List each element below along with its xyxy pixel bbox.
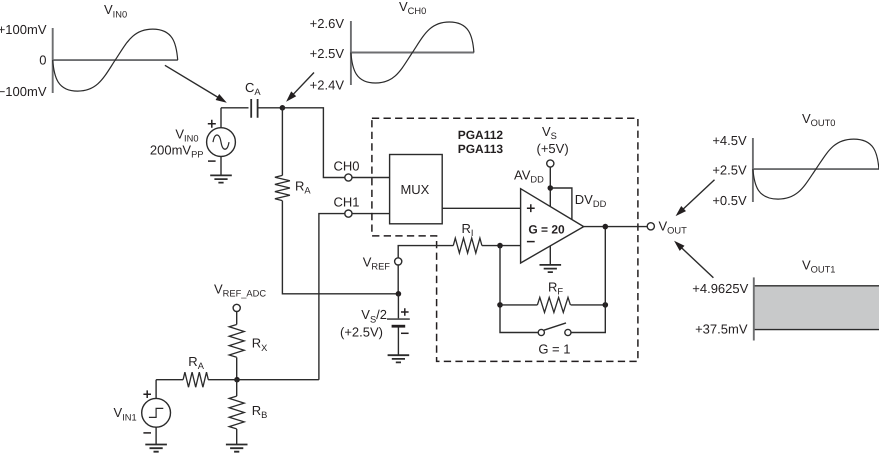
waveform V_CH0 label +2.4V [310, 78, 345, 93]
waveform V_IN0 label +100mV [0, 22, 47, 37]
wire battery to ground [397, 327, 399, 355]
waveform VOUT0 zero line [752, 168, 879, 170]
svg-text:G = 1: G = 1 [538, 341, 570, 356]
ground below V_IN0 [210, 175, 232, 182]
battery VS/2 plates [387, 319, 410, 326]
svg-text:VOUT: VOUT [659, 218, 688, 235]
source V_IN0 plus sign [208, 120, 216, 128]
svg-text:VCH0: VCH0 [399, 0, 426, 16]
CH1 terminal circle [345, 210, 352, 217]
svg-text:G = 20: G = 20 [528, 222, 565, 236]
resistor RA2 label [188, 354, 204, 371]
wire node A down to resistor RA [281, 108, 283, 176]
svg-text:RA: RA [295, 179, 311, 196]
wire capacitor CA to node A [258, 107, 283, 109]
svg-text:0: 0 [39, 53, 46, 68]
svg-text:VS/2: VS/2 [361, 307, 387, 324]
AVDD label [514, 168, 544, 185]
svg-text:−100mV: −100mV [0, 84, 47, 99]
VOUT label [659, 218, 688, 235]
resistor RB [229, 396, 244, 429]
svg-text:RX: RX [252, 336, 268, 353]
dashed boundary of PGA112/PGA113 [372, 118, 638, 361]
svg-text:PGA113: PGA113 [458, 142, 504, 156]
svg-text:VREF: VREF [363, 255, 391, 272]
ground below RB [226, 445, 248, 452]
source VIN1 label [114, 405, 137, 422]
svg-text:+2.5V: +2.5V [310, 46, 345, 61]
wire DVDD [550, 188, 572, 220]
node RF left junction dot [497, 302, 503, 308]
waveform V_IN0 y-axis [52, 28, 54, 93]
waveform V_CH0 y-axis [350, 21, 352, 85]
CH0 label [333, 159, 359, 174]
waveform V_IN0 label -100mV [0, 84, 47, 99]
svg-text:+2.6V: +2.6V [310, 16, 345, 31]
svg-text:VS: VS [542, 124, 557, 141]
svg-text:+2.5V: +2.5V [712, 162, 747, 177]
wire RX to divider node [236, 357, 238, 379]
capacitor CA [251, 99, 257, 118]
svg-text:RF: RF [548, 280, 563, 297]
waveform V_IN0 sine curve [53, 29, 178, 91]
ground below op-amp [540, 265, 562, 272]
VREF label [363, 255, 391, 272]
waveform V_CH0 zero line [350, 52, 474, 54]
MUX label [400, 182, 429, 197]
svg-text:CA: CA [245, 80, 261, 97]
waveform VOUT0 label +2.5V [712, 162, 747, 177]
resistor RA2 horizontal [183, 372, 208, 387]
switch G=1 left contact [538, 329, 544, 335]
wire node to battery [397, 294, 399, 319]
svg-text:MUX: MUX [400, 182, 429, 197]
op-amp U1 triangle [521, 189, 584, 263]
svg-text:+100mV: +100mV [0, 22, 47, 37]
wire resistor RI to op-amp minus [482, 245, 521, 247]
svg-text:(+5V): (+5V) [537, 141, 569, 156]
svg-text:RI: RI [462, 221, 474, 238]
svg-text:RA: RA [188, 354, 204, 371]
CH1 label [333, 195, 359, 210]
ground below VS/2 [388, 355, 410, 362]
wire VIN1 top [155, 380, 157, 399]
svg-text:+37.5mV: +37.5mV [695, 321, 748, 336]
resistor RX [229, 325, 244, 358]
source VIN1 minus sign [143, 432, 151, 434]
waveform V_IN0 zero line [52, 59, 178, 61]
wire VIN1 to RA2 [156, 379, 183, 381]
wire minus node down to RF [500, 246, 538, 333]
svg-text:200mVPP: 200mVPP [150, 143, 204, 160]
wire op-amp output [584, 226, 648, 228]
waveform VOUT0 label +0.5V [712, 193, 747, 208]
switch G=1 right contact [565, 329, 571, 335]
resistor RA label [295, 179, 311, 196]
svg-text:AVDD: AVDD [514, 168, 544, 185]
DVDD label [575, 192, 607, 209]
wire CH1 to MUX [352, 213, 390, 215]
switch G=1 label [538, 341, 570, 356]
VS/2 label [361, 307, 387, 324]
source VIN1 plus sign [143, 390, 151, 398]
waveform plot VOUT1 title [802, 257, 835, 274]
svg-text:VIN0: VIN0 [175, 127, 198, 144]
waveform VOUT0 label +4.5V [712, 133, 747, 148]
svg-text:VIN0: VIN0 [104, 2, 127, 19]
waveform VOUT0 y-axis [752, 138, 754, 202]
switch G=1 lever [544, 323, 566, 330]
waveform plot V_IN0 title [104, 2, 127, 19]
resistor RI label [462, 221, 474, 238]
wire VS to AVDD pin [549, 167, 551, 207]
svg-text:VREF_ADC: VREF_ADC [214, 281, 266, 298]
resistor RI [453, 238, 482, 253]
source VIN1 step symbol [149, 408, 163, 417]
wire CH0 to MUX [352, 177, 390, 179]
supply +5V label [537, 141, 569, 156]
waveform V_CH0 label +2.6V [310, 16, 345, 31]
svg-text:(+2.5V): (+2.5V) [340, 324, 383, 339]
node minus-input junction dot [497, 243, 503, 249]
resistor RX label [252, 336, 268, 353]
node VS/2 junction dot [396, 291, 402, 297]
VOUT terminal circle [647, 223, 654, 230]
waveform VOUT1 label +4.9625V [692, 281, 748, 296]
wire MUX output to op-amp [442, 207, 520, 209]
wire node A to CH0 terminal [282, 108, 345, 178]
MUX box [390, 155, 443, 224]
VOUT1 bar top edge [754, 285, 879, 287]
wire RB top lead [236, 380, 238, 396]
svg-text:PGA112: PGA112 [458, 128, 504, 142]
resistor RF label [548, 280, 563, 297]
svg-text:+4.9625V: +4.9625V [692, 281, 748, 296]
wire VREF to resistor RI [398, 246, 453, 258]
waveform V_CH0 label +2.5V [310, 46, 345, 61]
op-amp minus input sign [527, 241, 535, 243]
svg-text:DVDD: DVDD [575, 192, 607, 209]
svg-text:+0.5V: +0.5V [712, 193, 747, 208]
resistor RB label [252, 403, 268, 420]
op-amp plus input sign [527, 204, 535, 212]
node A junction dot [280, 105, 286, 111]
wire VIN1 bottom [155, 427, 157, 444]
svg-text:RB: RB [252, 403, 268, 420]
battery VS/2 plus sign [401, 308, 409, 316]
VREF_ADC label [214, 281, 266, 298]
wire source V_IN0 top [220, 108, 222, 128]
VREF_ADC terminal circle [233, 304, 240, 311]
svg-text:CH0: CH0 [333, 159, 359, 174]
VOUT1 gray bar [754, 286, 879, 330]
op-amp gain label G = 20 [528, 222, 565, 236]
waveform V_IN0 label 0 [39, 53, 46, 68]
svg-text:VOUT0: VOUT0 [802, 111, 835, 128]
waveform VOUT1 label +37.5mV [695, 321, 748, 336]
wire RA2 to divider node [208, 379, 237, 381]
wire switch to output node [571, 227, 605, 333]
waveform VOUT1 y-axis [753, 277, 755, 340]
arrow from V_CH0 waveform to node A [286, 73, 314, 102]
source V_IN0 minus sign [208, 160, 216, 162]
wire RB to ground [236, 429, 238, 445]
arrow from V_IN0 waveform to source node [165, 65, 227, 102]
wire resistor RA to VREF rail [282, 201, 398, 294]
svg-text:VOUT1: VOUT1 [802, 257, 835, 274]
PGA112 label [458, 128, 504, 142]
VOUT1 bar bottom edge [754, 329, 879, 331]
VREF terminal circle [395, 258, 402, 265]
node output junction dot [603, 224, 609, 230]
arrow from VOUT1 bar to VOUT [674, 241, 713, 278]
source V_IN0 circle [207, 128, 236, 157]
svg-text:+2.4V: +2.4V [310, 78, 345, 93]
capacitor CA label [245, 80, 261, 97]
node RF right junction dot [603, 302, 609, 308]
+2.5V label [340, 324, 383, 339]
svg-text:VIN1: VIN1 [114, 405, 137, 422]
wire RF left lead [500, 304, 537, 306]
arrow from VOUT0 waveform to VOUT [676, 180, 715, 216]
waveform VOUT0 sine curve [753, 139, 879, 199]
supply VS label [542, 124, 557, 141]
CH0 terminal circle [345, 174, 352, 181]
source V_IN0 value label 200mVPP [150, 143, 204, 160]
svg-text:+4.5V: +4.5V [712, 133, 747, 148]
node divider junction dot [234, 377, 240, 383]
source VIN1 circle [142, 398, 171, 427]
battery VS/2 minus sign [401, 332, 409, 334]
PGA113 label [458, 142, 504, 156]
svg-text:CH1: CH1 [333, 195, 359, 210]
ground below VIN1 [145, 445, 167, 452]
waveform plot V_CH0 title [399, 0, 426, 16]
source V_IN0 sine symbol [213, 135, 229, 149]
wire op-amp ground [549, 246, 551, 265]
waveform plot VOUT0 title [802, 111, 835, 128]
resistor RF [537, 297, 570, 312]
source V_IN0 label [175, 127, 198, 144]
waveform V_CH0 sine curve [351, 22, 474, 83]
wire source V_IN0 bottom [220, 157, 222, 176]
wire VREF_ADC to RX [236, 311, 238, 324]
resistor RA vertical [275, 175, 290, 200]
wire source to capacitor CA [221, 107, 249, 109]
wire divider node to CH1 riser [237, 379, 319, 381]
wire RF right lead [571, 304, 606, 306]
wire CH1 down to divider node [319, 214, 345, 380]
VS terminal circle [547, 160, 554, 167]
wire VREF to VS/2 node [397, 265, 399, 294]
AVDD junction dot [548, 185, 554, 191]
